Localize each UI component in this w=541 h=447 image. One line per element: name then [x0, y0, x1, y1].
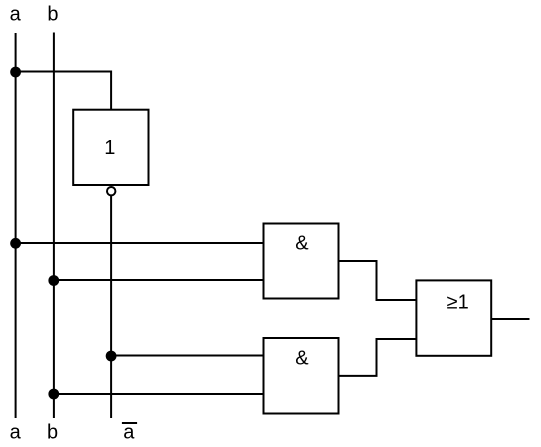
wire: b tap to upper AND input 2 [54, 279, 264, 281]
wire: a-bar tap to lower AND input 1 [111, 355, 263, 357]
svg-text:b: b [47, 4, 58, 26]
svg-text:&: & [295, 348, 309, 370]
inverter U1 body (box "1") [73, 110, 148, 185]
AND gate U3 body (lower, "&") [264, 338, 339, 414]
AND gate U2 body (upper, "&") [264, 224, 339, 299]
inverter U1 output bubble [107, 187, 115, 195]
svg-text:&: & [295, 233, 309, 255]
junction: net b / upper AND input tap [48, 275, 59, 286]
label: overline of a-bar [122, 422, 137, 424]
wire: b tap to lower AND input 2 [54, 393, 264, 395]
junction: net b / lower AND input tap [48, 389, 59, 400]
wire: a tap horizontal to NOT gate input [16, 72, 112, 110]
wire: net b vertical bus line [53, 33, 55, 419]
wire: net a-bar vertical line (NOT output to bottom) [110, 196, 112, 419]
svg-text:a: a [10, 422, 22, 444]
svg-text:a: a [10, 4, 22, 26]
junction: net a / NOT input tap [10, 67, 21, 78]
wire: a tap to upper AND input 1 [16, 242, 264, 244]
wire: upper AND output to OR input 1 [339, 261, 417, 300]
junction: net a / upper AND input tap [10, 238, 21, 249]
svg-text:≥1: ≥1 [447, 292, 469, 314]
svg-text:1: 1 [104, 137, 115, 159]
junction: net a-bar / lower AND input tap [106, 351, 117, 362]
wire: lower AND output to OR input 2 [339, 339, 417, 376]
wire: net a vertical bus line [15, 33, 17, 418]
svg-text:b: b [47, 422, 58, 444]
OR gate U4 body ("&#8805;1") [416, 280, 491, 355]
wire: OR gate output [491, 318, 529, 320]
svg-text:a: a [123, 422, 135, 444]
